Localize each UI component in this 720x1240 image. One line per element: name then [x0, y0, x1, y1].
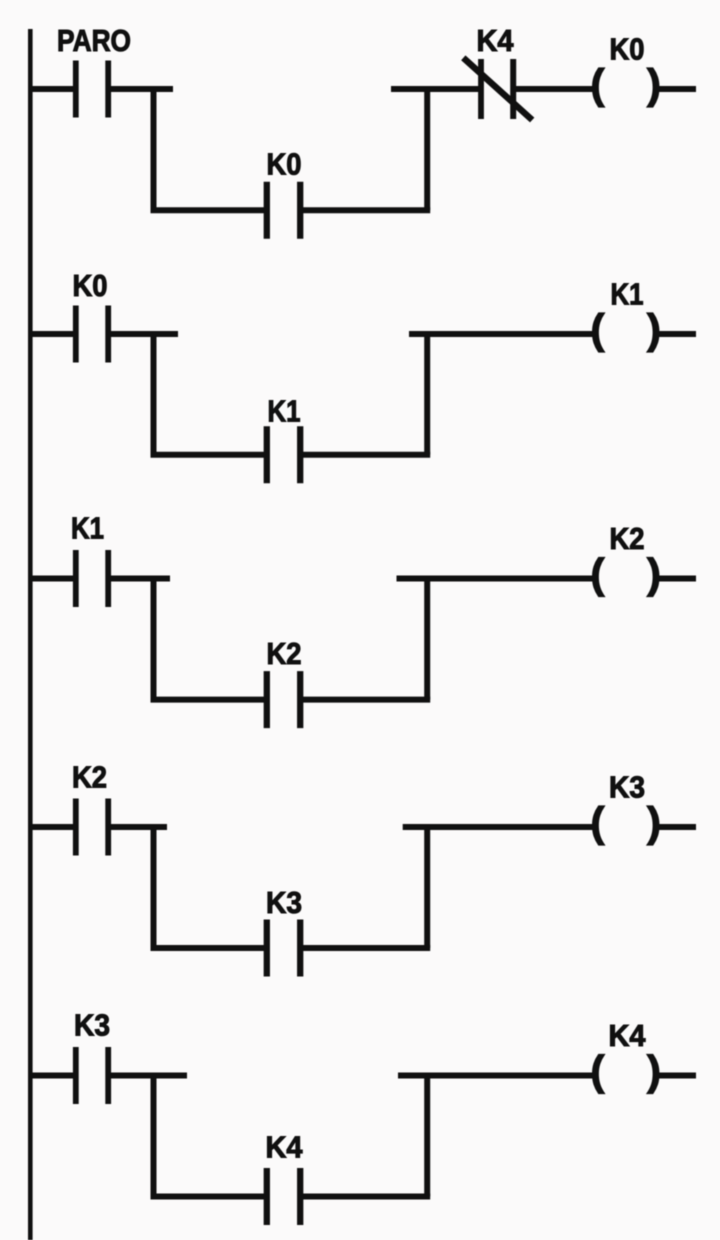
svg-text:(: ( — [591, 306, 605, 353]
svg-text:(: ( — [591, 799, 605, 846]
contact K1 (NO, lower branch) — [267, 426, 300, 483]
rung 4: lower branch wire right — [303, 945, 431, 951]
coil K0 — [591, 61, 662, 108]
coil K2 — [591, 550, 662, 597]
rung 3: wire coil to right — [659, 576, 697, 582]
rung 3: riser wire up to output line — [424, 579, 430, 700]
rung 2: stub wire after contact — [111, 331, 178, 337]
rung 3: wire rail to contact — [28, 576, 73, 582]
contact K4 (NO, lower branch) — [267, 1168, 300, 1225]
svg-text:(: ( — [591, 550, 605, 597]
svg-text:K1: K1 — [71, 511, 104, 546]
contact K0 (NO, lower branch) — [267, 182, 300, 239]
rung 4: wire coil to right — [659, 824, 697, 830]
rung 5: wire rail to contact — [28, 1073, 73, 1079]
svg-text:K0: K0 — [267, 147, 302, 182]
rung 3: stub wire after contact — [111, 576, 170, 582]
rung 4: wire rail to contact — [28, 824, 73, 830]
rung 1: wire rail to contact — [28, 86, 73, 92]
contact K4 (NC) — [463, 58, 532, 120]
rung 5: stub wire after contact — [111, 1073, 187, 1079]
rung 3: lower branch wire left — [151, 697, 265, 703]
contact K1 (NO) — [76, 550, 108, 607]
rung 4: output wire to coil — [403, 824, 594, 830]
rung 2: wire coil to right — [659, 331, 697, 337]
svg-text:K4: K4 — [477, 23, 515, 58]
rung 5: lower branch wire left — [151, 1194, 265, 1200]
rung 1: lower branch wire left — [151, 207, 265, 213]
svg-text:K2: K2 — [610, 521, 645, 556]
contact K3 (NO) — [76, 1047, 108, 1104]
rung 2: lower branch wire right — [303, 452, 431, 458]
coil K3 — [591, 799, 662, 846]
rung 4: stub wire after contact — [111, 824, 167, 830]
svg-text:K0: K0 — [73, 268, 108, 303]
rung 3: output wire to coil — [397, 576, 595, 582]
contact K2 (NO, lower branch) — [267, 671, 300, 728]
rung 1: stub wire after contact — [111, 86, 173, 92]
rung 3: drop wire to lower branch — [151, 579, 157, 700]
left power rail — [28, 29, 33, 1240]
rung 1: drop wire to lower branch — [151, 89, 157, 210]
rung 1: output wire to NC contact — [391, 86, 479, 92]
svg-text:): ) — [647, 306, 661, 353]
coil K1 — [591, 306, 662, 353]
rung 5: lower branch wire right — [303, 1194, 431, 1200]
svg-text:): ) — [647, 550, 661, 597]
rung 5: output wire to coil — [398, 1073, 594, 1079]
svg-text:K1: K1 — [268, 393, 301, 428]
rung 2: lower branch wire left — [151, 452, 265, 458]
svg-text:K3: K3 — [266, 885, 302, 920]
svg-text:K3: K3 — [74, 1008, 110, 1043]
rung 2: output wire to coil — [409, 331, 594, 337]
svg-text:): ) — [647, 61, 661, 108]
rung 1: wire coil to right — [659, 86, 697, 92]
rung 5: riser wire up to output line — [424, 1076, 430, 1197]
svg-text:K0: K0 — [610, 32, 645, 67]
svg-text:PARO: PARO — [57, 23, 131, 58]
svg-text:K2: K2 — [72, 760, 107, 795]
rung 2: drop wire to lower branch — [151, 334, 157, 455]
contact K2 (NO) — [76, 799, 108, 856]
svg-text:K4: K4 — [266, 1130, 304, 1165]
rung 5: wire coil to right — [659, 1073, 697, 1079]
rung 1: riser wire up to output line — [424, 89, 430, 210]
contact PARO (NO) — [76, 61, 108, 118]
rung 2: riser wire up to output line — [424, 334, 430, 455]
rung 2: wire rail to contact — [28, 331, 73, 337]
svg-text:): ) — [647, 799, 661, 846]
rung 3: lower branch wire right — [303, 697, 431, 703]
rung 1: lower branch wire right — [303, 207, 431, 213]
contact K3 (NO, lower branch) — [267, 920, 300, 977]
rung 1: wire NC contact to coil — [516, 86, 594, 92]
rung 4: riser wire up to output line — [424, 827, 430, 948]
svg-text:K2: K2 — [267, 636, 302, 671]
coil K4 — [591, 1047, 662, 1094]
rung 5: drop wire to lower branch — [151, 1076, 157, 1197]
svg-text:K4: K4 — [609, 1018, 647, 1053]
svg-text:): ) — [647, 1047, 661, 1094]
svg-text:K1: K1 — [611, 277, 644, 312]
svg-text:(: ( — [591, 61, 605, 108]
contact K0 (NO) — [76, 306, 108, 363]
svg-text:(: ( — [591, 1047, 605, 1094]
rung 4: lower branch wire left — [151, 945, 265, 951]
svg-text:K3: K3 — [609, 770, 645, 805]
rung 4: drop wire to lower branch — [151, 827, 157, 948]
